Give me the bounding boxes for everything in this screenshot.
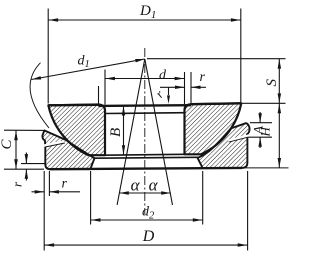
centerline (axis)	[144, 48, 146, 214]
svg-text:d: d	[159, 68, 167, 83]
bore bottom edge line (shaft washer)	[105, 153, 185, 156]
svg-text:D: D	[142, 228, 155, 245]
D extension line right	[247, 171, 249, 251]
B dimension line	[123, 106, 125, 155]
split slit lower-right (white)	[228, 136, 248, 141]
top face extension line right	[241, 102, 285, 104]
shaft washer upper-right section	[185, 103, 242, 154]
alpha dimension line	[119, 192, 170, 194]
A extension line top	[250, 122, 272, 124]
split line lower-right	[229, 137, 249, 142]
r bottom extension line inner	[48, 171, 50, 196]
A extension line bottom	[248, 136, 272, 138]
housing washer lower-right section	[198, 123, 250, 168]
C/bottom extension line left	[4, 168, 44, 170]
A dimension arrows outside	[259, 112, 261, 123]
svg-text:r: r	[62, 177, 68, 192]
r chamfer extension line right	[190, 72, 192, 104]
r dimension line with outside arrows	[160, 86, 185, 88]
top face far-edge line across bore	[99, 104, 192, 107]
top face line left	[48, 104, 98, 107]
D dimension line	[44, 244, 247, 246]
d1 sphere extension arc	[30, 63, 49, 128]
split line lower-left	[45, 143, 65, 147]
d2 extension line right	[202, 171, 204, 225]
H dimension line	[278, 103, 280, 168]
svg-text:α: α	[149, 176, 159, 195]
split slit lower-left (white)	[44, 142, 64, 146]
D1 extension line right	[240, 9, 242, 104]
d2 dimension line	[91, 219, 203, 221]
S top extension line	[147, 58, 286, 60]
d1 dimension line	[32, 59, 145, 80]
r fillet extension line	[21, 163, 45, 165]
svg-text:C: C	[0, 139, 15, 150]
svg-text:B: B	[108, 128, 124, 137]
d extension line left (bore edge)	[104, 70, 106, 105]
svg-text:S: S	[264, 79, 280, 87]
r bottom extension line outer	[43, 171, 45, 251]
top face line right	[191, 102, 241, 105]
small r leader to far-side chamfer	[168, 87, 170, 95]
S dimension line	[278, 59, 280, 104]
chamfer extension line left	[98, 86, 100, 105]
shaft washer upper-left section	[48, 105, 105, 156]
D1 extension line left	[47, 9, 49, 104]
C dimension line	[15, 130, 17, 169]
d dimension line	[105, 78, 185, 80]
alpha cone line right	[145, 59, 173, 205]
housing washer lower-left section	[42, 131, 94, 170]
bottom face extension right	[242, 167, 289, 169]
housing washer bore top edge line	[95, 156, 198, 159]
d2 extension line left	[90, 171, 92, 225]
d extension line right	[184, 72, 186, 104]
alpha cone line left	[117, 59, 145, 205]
chamfer far-edge line across bore	[105, 112, 185, 115]
C extension line top	[4, 129, 45, 131]
r fillet arrows outside	[25, 153, 27, 164]
bottom face line across bore	[50, 168, 243, 169]
svg-text:r: r	[200, 70, 206, 85]
D1 dimension line	[48, 19, 241, 21]
r bottom dimension line	[32, 191, 45, 193]
svg-text:A: A	[251, 126, 266, 135]
svg-text:α: α	[131, 176, 141, 195]
